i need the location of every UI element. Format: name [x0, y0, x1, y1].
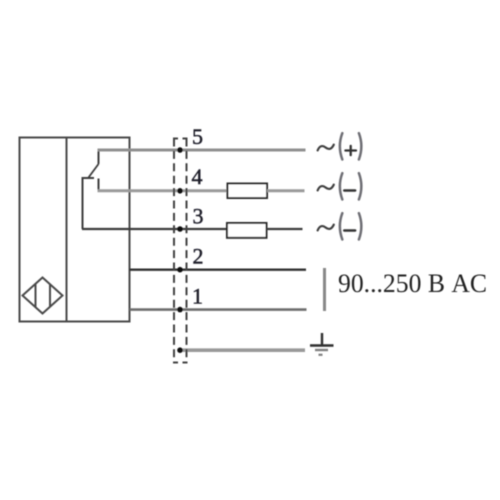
terminal 1 dot: [177, 307, 183, 313]
pin number 5: [192, 124, 203, 149]
switch contact bar: [82, 177, 95, 179]
pin number 4: [192, 164, 203, 189]
wire 1: [130, 308, 307, 311]
svg-text:3: 3: [193, 204, 204, 229]
terminal 2 dot: [177, 267, 183, 273]
terminal strip (dashed connector): [173, 139, 188, 363]
sensor body outline: [20, 138, 130, 322]
wire 4 left segment: [98, 189, 229, 192]
svg-text:5: 5: [192, 124, 203, 149]
terminal 4 dot: [177, 188, 183, 194]
wire 5: [98, 149, 306, 152]
wire 2: [130, 269, 307, 271]
pin number 1: [192, 284, 203, 309]
resistor R1 on wire 4: [228, 184, 268, 199]
label ~(-) on wire 4: [318, 173, 362, 199]
ground: [310, 333, 334, 355]
svg-text:90...250 В AC: 90...250 В AC: [338, 269, 487, 298]
label 90...250 V AC: [338, 269, 487, 298]
pin number 3: [193, 204, 204, 229]
switch blade from pin 5: [89, 149, 99, 178]
resistor R2 on wire 3: [227, 223, 267, 238]
wire from contact bar down to pin 3: [82, 178, 84, 230]
separator bar before power label: [323, 268, 326, 311]
svg-text:1: 1: [192, 284, 203, 309]
terminal 5 dot: [177, 147, 183, 153]
switch fixed contact to pin 4: [98, 179, 100, 192]
sensor body divider: [66, 138, 68, 322]
wire 3 left segment: [82, 228, 228, 230]
svg-text:4: 4: [192, 164, 203, 189]
terminal 3 dot: [177, 226, 183, 232]
wire 4 right segment: [267, 189, 305, 192]
label ~(+) on wire 5: [318, 133, 362, 159]
ground terminal dot: [177, 347, 183, 353]
pin number 2: [193, 244, 204, 269]
ground wire: [180, 348, 305, 352]
svg-text:2: 2: [193, 244, 204, 269]
wire 3 right segment: [267, 228, 303, 230]
proximity sensor symbol (diamond): [23, 278, 63, 314]
label ~(-) on wire 3: [318, 213, 362, 239]
